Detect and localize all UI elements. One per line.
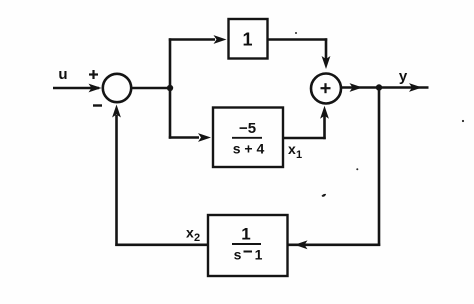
arrowhead output y xyxy=(409,83,422,92)
wire S2 output to node xyxy=(341,86,380,89)
svg-text:x: x xyxy=(186,225,194,241)
wire feedback left vertical xyxy=(115,115,118,246)
svg-text:2: 2 xyxy=(194,232,200,244)
speck right edge xyxy=(462,120,464,122)
svg-text:1: 1 xyxy=(255,247,263,263)
speck near top wire xyxy=(295,32,297,34)
svg-text:1: 1 xyxy=(296,149,302,161)
wire lower branch horizontal xyxy=(169,136,199,139)
svg-text:1: 1 xyxy=(242,30,252,50)
block G1 gain 1 xyxy=(229,19,268,59)
arrowhead on output wire xyxy=(350,83,363,92)
node branch point xyxy=(167,85,173,91)
minus sign at S1 xyxy=(93,104,102,106)
summing junction S2 xyxy=(311,74,341,104)
arrowhead into block G2 xyxy=(198,133,211,142)
wire lower branch vertical xyxy=(169,87,172,139)
wire feedback left horizontal xyxy=(115,244,208,247)
plus sign inside S2 xyxy=(321,83,331,93)
block G2 transfer -5/(s+4) xyxy=(213,108,283,168)
fraction bar in G2 xyxy=(232,137,262,139)
arrowhead into block G1 xyxy=(214,35,227,44)
wire G1 output horizontal xyxy=(268,38,328,41)
arrowhead into S2 top xyxy=(322,56,331,69)
wire feedback right vertical xyxy=(378,86,381,246)
wire G1 output vertical down to S2 xyxy=(325,38,328,59)
speck comma mark xyxy=(322,194,327,197)
arrowhead into summing junction S1 xyxy=(89,84,102,93)
node output branch point xyxy=(376,84,382,90)
svg-text:x: x xyxy=(288,141,296,157)
wire G2 output vertical up to S2 xyxy=(323,113,326,139)
wire feedback right horizontal xyxy=(288,244,380,247)
svg-text:u: u xyxy=(58,66,67,83)
wire S1 to branch node xyxy=(131,87,171,90)
block G3 transfer 1/(s-1) xyxy=(208,215,288,276)
wire input u xyxy=(53,87,99,90)
svg-text:s: s xyxy=(234,247,242,263)
summing junction S1 xyxy=(103,74,131,102)
speck mid right xyxy=(356,168,358,170)
svg-text:1: 1 xyxy=(241,225,250,244)
fraction bar in G3 xyxy=(232,243,261,245)
arrowhead into S1 bottom xyxy=(112,105,121,118)
svg-text:s + 4: s + 4 xyxy=(233,141,265,157)
arrowhead into S2 bottom xyxy=(320,106,329,119)
svg-text:y: y xyxy=(399,68,408,85)
svg-text:−5: −5 xyxy=(239,120,256,137)
plus sign at S1 xyxy=(89,70,98,79)
arrowhead into block G3 right side xyxy=(295,240,308,249)
wire G2 output horizontal xyxy=(283,137,326,140)
wire upper branch vertical xyxy=(169,38,172,89)
wire output y xyxy=(379,86,429,89)
wire upper branch horizontal xyxy=(169,38,215,41)
